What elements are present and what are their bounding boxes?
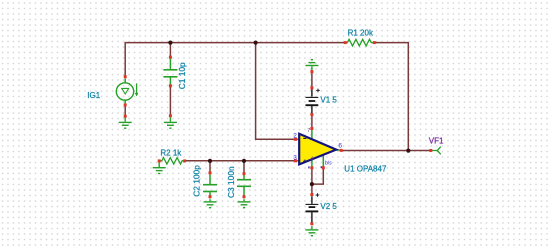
svg-text:6: 6: [338, 142, 342, 149]
svg-text:VF1: VF1: [429, 136, 444, 145]
svg-text:R1 20k: R1 20k: [348, 29, 374, 38]
svg-text:7: 7: [307, 128, 310, 134]
svg-text:V1 5: V1 5: [320, 96, 337, 105]
svg-text:U1 OPA847: U1 OPA847: [344, 165, 387, 174]
svg-text:IG1: IG1: [87, 91, 100, 100]
svg-text:b/s: b/s: [325, 161, 332, 167]
svg-text:C1 10p: C1 10p: [177, 62, 187, 89]
svg-text:V2 5: V2 5: [320, 202, 337, 211]
svg-text:C2 100p: C2 100p: [192, 165, 202, 197]
svg-text:3: 3: [293, 154, 297, 161]
svg-text:R2 1k: R2 1k: [160, 148, 182, 157]
svg-text:4: 4: [310, 157, 313, 163]
svg-text:C3 100n: C3 100n: [226, 166, 236, 198]
svg-text:2: 2: [293, 133, 297, 140]
